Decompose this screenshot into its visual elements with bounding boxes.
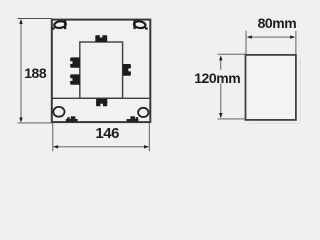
svg-text:146: 146 [95,125,119,142]
svg-text:120mm: 120mm [194,70,240,86]
svg-text:188: 188 [24,65,47,81]
svg-text:80mm: 80mm [258,15,297,31]
